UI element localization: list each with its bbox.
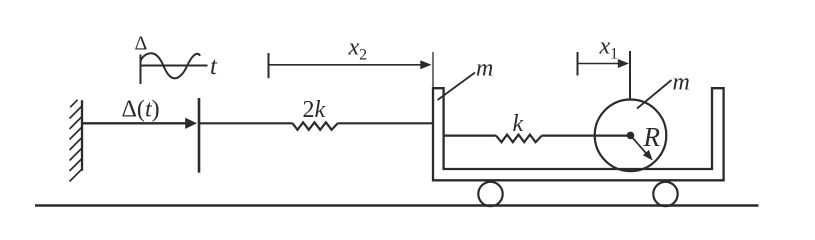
massless plate (vertical bar)	[198, 98, 201, 173]
spring 2k	[293, 122, 338, 130]
svg-text:R: R	[643, 122, 661, 152]
leader line for cart label m	[438, 73, 476, 101]
arrowhead of input displacement	[185, 118, 197, 129]
svg-text:m: m	[476, 56, 493, 82]
svg-text:Δ: Δ	[135, 33, 148, 55]
svg-text:x1: x1	[599, 34, 619, 63]
sine plot horizontal axis	[141, 65, 208, 67]
dimension x2 extension line	[432, 52, 434, 87]
left wheel	[478, 182, 502, 206]
rod from spring 2k to cart	[338, 122, 433, 124]
sine plot vertical axis	[140, 55, 142, 85]
sine wave	[141, 53, 201, 78]
svg-text:Δ(t): Δ(t)	[122, 97, 160, 123]
cart body (mass m channel)	[433, 88, 724, 180]
svg-text:t: t	[210, 53, 218, 80]
ground line	[35, 204, 759, 206]
dimension x1 arrowhead	[618, 59, 629, 68]
svg-text:k: k	[513, 111, 524, 137]
rod from cart wall to spring k	[444, 135, 496, 137]
radius arrowhead	[643, 150, 653, 161]
svg-text:x2: x2	[348, 35, 368, 64]
disk (mass m, radius R)	[595, 100, 667, 172]
spring k	[496, 135, 542, 143]
dimension x2 arrowhead	[420, 60, 431, 69]
dimension x1 arrow line	[578, 63, 620, 65]
svg-text:m: m	[673, 70, 690, 96]
right wheel	[653, 182, 677, 206]
rod from plate to spring 2k	[199, 122, 293, 124]
dimension x1 left tick	[577, 52, 579, 76]
dimension x2 left tick	[268, 53, 270, 78]
rod from spring k to disk center	[542, 135, 631, 137]
input displacement rod	[82, 122, 187, 124]
dimension x1 extension line (disk centerline)	[629, 51, 631, 100]
fixed wall support (hatched)	[70, 100, 83, 182]
leader line for disk label m	[637, 80, 672, 109]
svg-text:2k: 2k	[303, 97, 326, 123]
disk center dot	[627, 132, 635, 140]
radius arrow shaft	[633, 138, 648, 155]
dimension x2 arrow line	[269, 64, 422, 66]
